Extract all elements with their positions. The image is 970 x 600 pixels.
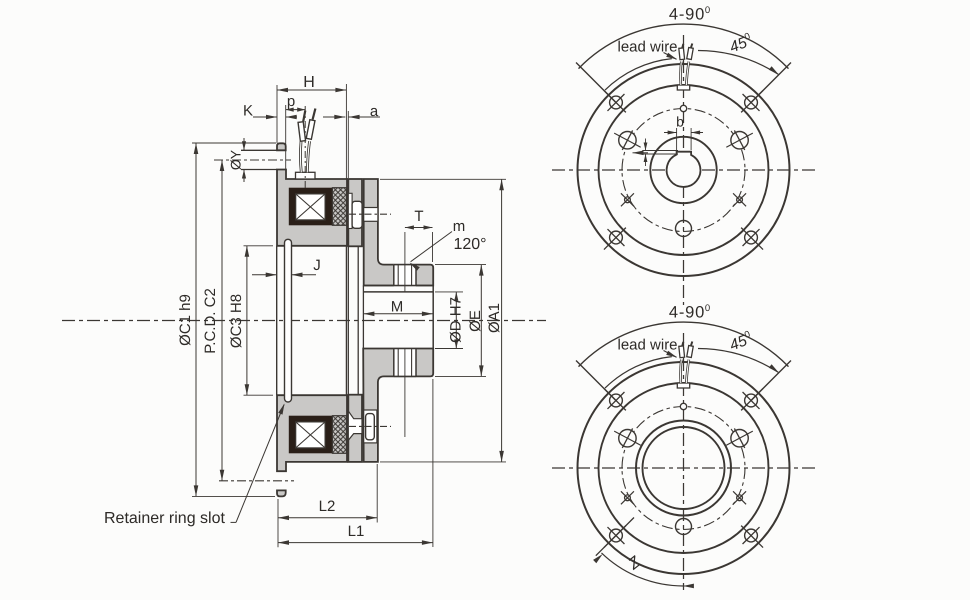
wire terminal right section [306,109,315,140]
threaded holes upper bottom view [614,428,753,447]
mounting holes 4-90 bottom view [604,388,763,547]
flange outer circle bottom view [578,362,790,574]
lead wires bottom view [681,360,689,384]
field yoke and flange top section [277,170,347,246]
flange tab bottom [277,490,286,496]
coil frame bottom [289,416,333,454]
flange face line [276,246,278,395]
label 4-90 top view [669,5,710,24]
dimension diameter E [435,265,486,377]
field yoke and flange bottom section [277,395,347,471]
dimension diameter C1 h9 [177,143,276,496]
svg-text:p: p [287,93,295,110]
bearing bore top [364,208,378,222]
small holes lower bottom view [621,491,746,504]
dimension K [243,103,297,120]
rotor hub line b [357,246,359,394]
wire terminals top view [679,44,693,60]
svg-text:J: J [313,257,321,274]
dimension a [323,103,380,178]
dimension Z arc bottom view [593,517,694,588]
dimension M [363,299,433,317]
lead wire pair section [300,141,309,172]
bearing retainer top [352,201,362,228]
retainer ring slot groove [285,239,292,402]
svg-text:ØE: ØE [467,310,484,332]
flange outer circle top view [578,64,790,276]
45 degree dimension arc top view [698,51,779,75]
bottom hole top view [676,221,692,237]
rotor friction face line [345,246,347,395]
dimension L2 [278,464,377,547]
rotor disc bottom section [348,395,362,462]
svg-text:T: T [414,208,423,225]
keyway slot line [363,285,433,287]
bottom hole bottom view [676,519,692,535]
svg-text:P.C.D. C2: P.C.D. C2 [202,288,219,354]
armature hub top section [364,179,434,286]
centerline main axis [62,320,546,322]
label lead wire bottom view [618,337,678,358]
label 4-90 bottom view [669,303,710,322]
lead wire terminal block section [296,172,316,179]
svg-text:0: 0 [705,5,710,16]
dimension p [286,93,306,169]
top hole top view [680,105,686,111]
armature hub bottom section [363,349,433,462]
svg-text:lead wire: lead wire [618,39,678,56]
svg-text:120°: 120° [453,236,486,253]
label 45 bottom view [727,329,755,354]
label m with leader [410,218,487,271]
lead wire terminal block bottom view [677,383,689,388]
svg-text:Retainer ring slot: Retainer ring slot [104,510,226,527]
tapped hole bottom [394,349,416,438]
svg-text:K: K [243,103,253,120]
coil frame top [289,188,333,226]
flange rim top [277,143,286,150]
friction lining bottom [332,416,346,454]
dimension b top view [664,114,703,151]
rivet bottom [366,414,375,440]
centerline vertical bottom view [683,333,685,590]
hub circle top view [650,137,716,203]
armature outer ring bottom view [636,421,731,516]
coil winding bottom [296,422,325,448]
lead wires top view [681,62,689,86]
rotor disc top section [348,179,362,246]
svg-text:ØC1 h9: ØC1 h9 [177,294,194,346]
threaded holes upper top view [614,130,753,149]
tapped hole top [394,232,416,293]
centerline pin hole top [214,159,291,161]
hub right face line [432,286,434,349]
armature inner ring bottom view [643,427,725,509]
wire terminal left section [298,111,305,142]
mounting holes 4-90 top view [604,90,763,249]
svg-text:b: b [676,114,684,130]
svg-text:L1: L1 [348,523,365,540]
dimension diameter D H7 [435,292,465,349]
top hole bottom view [680,403,686,409]
bolt circle bottom view [622,407,745,530]
rivet bore bottom [364,410,377,443]
dimension diameter A1 [380,179,506,462]
rotor slot recess top [348,193,352,228]
hub left face line [362,286,364,349]
dimension PCD C2 [202,160,224,481]
svg-text:a: a [370,103,379,120]
svg-text:ØC3 H8: ØC3 H8 [228,294,245,348]
svg-text:L2: L2 [319,498,336,515]
svg-text:m: m [453,218,466,235]
centerline pin hole bottom [219,480,294,482]
dimension H [277,74,346,179]
svg-text:lead wire: lead wire [618,337,678,354]
bolt circle top view [622,109,745,232]
centerline vertical top view [683,35,685,305]
yoke circle top view [599,85,769,255]
centerline bearing bottom [349,425,391,427]
45 degree dimension arc bottom view [698,349,779,373]
bore circle with keyway top view [667,152,701,187]
dimension diameter Y [228,138,247,182]
lead wire sector arc top view [576,24,791,103]
dimension J [252,257,321,277]
dimension L1 [278,379,433,547]
svg-text:ØD H7: ØD H7 [448,297,465,343]
dimension T [405,208,433,262]
wire terminals bottom view [679,342,693,358]
lead wire terminal block top view [677,85,689,90]
label 45 top view [727,31,755,56]
svg-text:ØA1: ØA1 [486,303,503,333]
svg-text:ØY: ØY [228,149,244,170]
rotor hub line a [347,246,349,394]
svg-text:4-90: 4-90 [669,304,705,322]
centerline horizontal top view [552,169,818,171]
svg-text:0: 0 [705,303,710,314]
bolt hole bottom edge lines [277,471,286,490]
inner sector arc top view [605,59,672,91]
inner sector arc bottom view [605,357,672,389]
svg-text:4-90: 4-90 [669,6,705,24]
yoke circle bottom view [599,383,769,553]
centerline lead wire section [304,106,306,190]
mounting pin boss lines [241,150,277,169]
keyway depth reference top view [633,139,679,167]
centerline horizontal bottom view [552,467,818,469]
small holes lower top view [621,193,746,206]
rotor spring seat bottom [348,411,362,440]
svg-text:M: M [391,299,404,316]
label retainer ring slot [104,404,285,528]
centerline bearing top [349,213,391,215]
bore line top [363,291,433,293]
coil winding top [296,194,325,220]
svg-text:H: H [303,74,315,91]
dimension diameter C3 H8 [228,246,273,395]
label lead wire top view [618,39,678,60]
friction lining top [332,188,346,226]
lead wire sector arc bottom view [576,322,791,401]
